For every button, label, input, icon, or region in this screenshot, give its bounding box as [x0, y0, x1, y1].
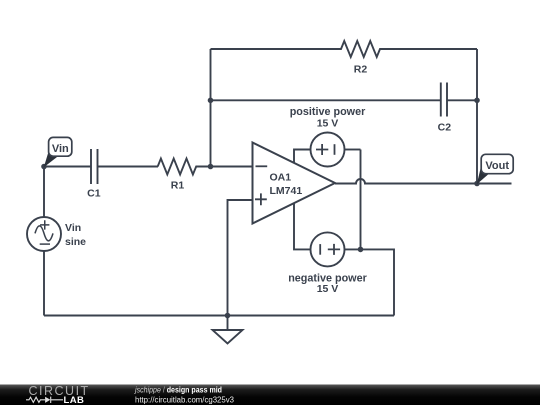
svg-text:positive power: positive power — [290, 106, 366, 118]
svg-text:Vin: Vin — [65, 222, 81, 234]
svg-text:sine: sine — [65, 236, 86, 248]
svg-text:LAB: LAB — [64, 395, 85, 405]
svg-text:C2: C2 — [438, 122, 452, 134]
svg-text:R2: R2 — [354, 64, 368, 76]
svg-text:15 V: 15 V — [317, 118, 339, 130]
svg-text:LM741: LM741 — [270, 185, 303, 197]
svg-text:R1: R1 — [171, 179, 185, 191]
svg-text:Vin: Vin — [52, 143, 69, 155]
svg-text:jschippe / design pass mid: jschippe / design pass mid — [134, 386, 222, 395]
svg-text:OA1: OA1 — [270, 172, 292, 184]
svg-text:Vout: Vout — [485, 160, 509, 172]
svg-text:C1: C1 — [87, 188, 101, 200]
svg-text:15 V: 15 V — [317, 283, 339, 295]
svg-text:http://circuitlab.com/cg325v3: http://circuitlab.com/cg325v3 — [135, 396, 235, 405]
